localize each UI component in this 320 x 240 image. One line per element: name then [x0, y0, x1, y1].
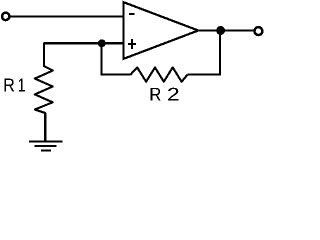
- input terminal: [2, 13, 9, 20]
- resistor R1: [35, 43, 53, 142]
- wire node A down to feedback: [100, 43, 102, 75]
- node A junction dot: [98, 39, 106, 47]
- wire R1 top to noninverting input: [44, 42, 124, 44]
- wire feedback up to output: [219, 31, 221, 76]
- wire feedback bottom left: [102, 74, 131, 76]
- wire op-amp output: [198, 29, 254, 31]
- op-amp U1: [124, 2, 199, 59]
- op-amp plus pin label: [128, 39, 136, 49]
- op-amp minus pin label: [129, 13, 135, 15]
- wire feedback bottom right: [188, 74, 221, 76]
- ground: [29, 142, 63, 151]
- output terminal: [254, 27, 262, 35]
- R2 value label: [151, 88, 179, 101]
- resistor R2: [131, 67, 188, 81]
- node B junction dot: [216, 26, 225, 35]
- R1 value label: [4, 79, 24, 92]
- wire input to op-amp inverting input: [10, 15, 124, 17]
